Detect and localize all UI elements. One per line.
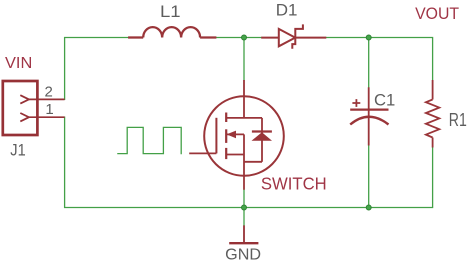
- svg-text:L1: L1: [160, 2, 181, 21]
- svg-text:1: 1: [45, 101, 53, 118]
- svg-text:VOUT: VOUT: [415, 4, 459, 23]
- svg-text:2: 2: [45, 84, 53, 101]
- svg-text:SWITCH: SWITCH: [261, 173, 327, 193]
- svg-text:C1: C1: [374, 90, 395, 109]
- svg-text:D1: D1: [276, 1, 298, 20]
- svg-text:VIN: VIN: [5, 55, 32, 72]
- svg-text:J1: J1: [10, 141, 25, 160]
- svg-text:GND: GND: [225, 247, 261, 264]
- svg-text:R1: R1: [449, 110, 467, 130]
